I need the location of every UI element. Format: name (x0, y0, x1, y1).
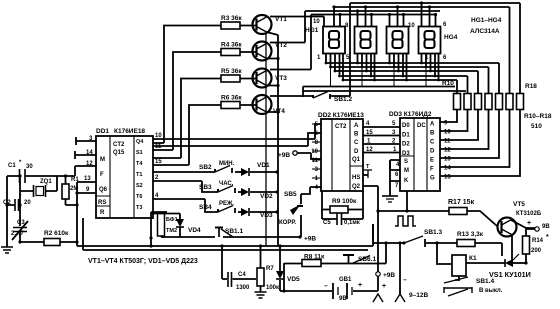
wire BF1 bottom (161, 236, 215, 237)
wire (218, 228, 220, 238)
svg-text:SB3: SB3 (199, 184, 212, 191)
junction (334, 70, 337, 73)
wire (421, 3, 423, 27)
terminal +9V left (293, 151, 297, 155)
svg-text:R4 36к: R4 36к (221, 42, 242, 49)
junction (275, 210, 278, 213)
wire (365, 7, 367, 27)
svg-text:CT2: CT2 (113, 142, 125, 148)
wire (179, 214, 181, 220)
svg-text:R10–R18: R10–R18 (524, 113, 552, 120)
svg-text:G: G (430, 176, 435, 182)
svg-text:VD4: VD4 (188, 227, 201, 234)
junction (402, 241, 405, 244)
svg-text:M: M (404, 168, 409, 174)
wire DD1 bottom to bus (151, 212, 167, 246)
svg-text:20: 20 (24, 200, 31, 206)
svg-text:T1: T1 (136, 172, 142, 178)
junction (370, 13, 373, 16)
wire (7, 204, 20, 206)
wire (312, 132, 321, 134)
svg-text:+9В: +9В (383, 272, 395, 279)
svg-text:В выкл.: В выкл. (479, 288, 503, 294)
resistor R5 36k (221, 75, 240, 82)
wire DD1 pin to R5 (181, 79, 221, 159)
wire (425, 54, 427, 87)
wire R17 to VT5 base (467, 211, 497, 226)
junction (332, 5, 335, 8)
wire (389, 181, 391, 196)
wire (389, 54, 391, 64)
junction (282, 289, 285, 292)
wire (398, 54, 400, 72)
wire (34, 185, 46, 197)
wire bottom bus 1 (77, 224, 373, 246)
wire (372, 224, 374, 241)
junction (329, 66, 332, 69)
wire SB6 riser (385, 243, 387, 264)
wire (12, 221, 28, 240)
wire (434, 54, 436, 77)
transistor VT3 (253, 69, 272, 88)
wire (238, 191, 241, 193)
svg-text:E: E (430, 158, 434, 164)
svg-text:C3: C3 (17, 220, 25, 226)
wire (15, 199, 19, 211)
ground left (1, 247, 13, 253)
wire DD2 D to DD3 D3 (363, 152, 400, 154)
svg-text:S2: S2 (136, 183, 143, 189)
wire (425, 54, 427, 68)
junction emitter VT3 (276, 84, 279, 87)
wire (312, 123, 321, 125)
wire R6-VT4 base (240, 104, 257, 106)
wire R13 to VS1 gate (475, 243, 502, 256)
svg-text:Q15: Q15 (113, 150, 125, 156)
svg-text:Q2: Q2 (352, 184, 361, 190)
svg-text:КОРР.: КОРР. (279, 220, 296, 226)
wire DD1 to SB4 (153, 199, 218, 212)
svg-text:B: B (354, 132, 359, 138)
junction (338, 13, 341, 16)
wire (333, 7, 335, 27)
svg-text:VS1 КУ101И: VS1 КУ101И (489, 270, 531, 279)
wire (377, 276, 379, 291)
junction (388, 62, 391, 65)
junction emitter VT2 (276, 57, 279, 60)
svg-text:*: * (546, 234, 549, 241)
svg-text:10: 10 (444, 130, 451, 136)
wire (7, 175, 75, 177)
svg-text:SB1.3: SB1.3 (424, 229, 442, 236)
wire (361, 54, 363, 68)
wire (77, 181, 96, 183)
svg-text:13: 13 (444, 157, 451, 163)
wire (438, 54, 440, 81)
svg-text:Q4: Q4 (136, 139, 144, 145)
junction (75, 191, 78, 194)
svg-text:SB5: SB5 (284, 191, 297, 198)
svg-text:T3: T3 (136, 205, 142, 211)
svg-text:HG1: HG1 (305, 27, 319, 34)
svg-text:D2: D2 (402, 142, 410, 148)
junction (75, 240, 78, 243)
svg-text:+9В: +9В (304, 236, 316, 243)
wire (440, 110, 468, 132)
junction (364, 5, 367, 8)
svg-text:VD2: VD2 (260, 193, 273, 200)
junction (64, 174, 67, 177)
svg-text:ЧАС.: ЧАС. (219, 181, 234, 187)
junction (435, 241, 438, 244)
svg-text:+: + (527, 220, 531, 227)
wire (513, 262, 526, 264)
wire (235, 171, 241, 173)
wire (351, 287, 353, 295)
junction (405, 79, 408, 82)
junction (434, 13, 437, 16)
svg-text:D1: D1 (402, 132, 410, 138)
junction (361, 66, 364, 69)
wire (75, 166, 96, 176)
wire (284, 263, 386, 265)
svg-text:SB1.1: SB1.1 (225, 228, 243, 235)
wire (466, 262, 505, 264)
wire seg bus c (336, 71, 478, 93)
junction (259, 244, 262, 247)
wire seg bus a (326, 63, 499, 93)
junction (402, 75, 405, 78)
wire (378, 210, 449, 212)
wire (332, 283, 334, 299)
svg-text:9В: 9В (542, 224, 550, 230)
wire (332, 119, 350, 191)
junction (18, 174, 21, 177)
junction (5, 203, 8, 206)
svg-text:SB2: SB2 (199, 164, 212, 171)
svg-text:DD1: DD1 (96, 128, 109, 135)
svg-text:R2 610к: R2 610к (44, 230, 69, 237)
svg-text:30: 30 (26, 164, 33, 170)
wire VT1 collector to HG1 (270, 17, 324, 27)
svg-text:VD1: VD1 (257, 162, 270, 169)
wire (301, 187, 321, 204)
svg-text:S: S (404, 159, 408, 165)
svg-text:9–12В: 9–12В (409, 292, 428, 299)
wire VT2 collector riser (270, 11, 305, 43)
wire (337, 287, 339, 295)
wire (440, 110, 457, 123)
svg-text:C4: C4 (238, 272, 246, 278)
wire (6, 176, 8, 247)
wire (279, 246, 281, 291)
wire (366, 54, 368, 72)
wire (397, 7, 399, 27)
wire (364, 170, 372, 178)
svg-text:F: F (430, 167, 434, 173)
wire DD1 pin to R3 (164, 26, 221, 144)
wire seg bus d (341, 76, 468, 93)
svg-text:D: D (354, 149, 359, 155)
svg-text:2…7: 2…7 (11, 231, 24, 237)
wire VT4 collector (270, 95, 313, 97)
wire (440, 110, 499, 159)
wire (96, 196, 110, 206)
wire (395, 216, 416, 226)
svg-text:БФ1: БФ1 (166, 217, 178, 223)
wire (424, 239, 426, 247)
junction (420, 62, 423, 65)
svg-text:R18: R18 (525, 83, 537, 90)
junction (220, 244, 223, 247)
wire top bus 4 (311, 14, 437, 16)
wire (66, 176, 78, 205)
wire (250, 191, 277, 193)
svg-text:10: 10 (313, 19, 320, 25)
junction (405, 209, 408, 212)
wire (346, 283, 348, 299)
wire (250, 211, 277, 213)
svg-text:F: F (100, 172, 104, 178)
svg-text:C: C (430, 140, 435, 146)
wire (440, 110, 510, 168)
wire (444, 287, 472, 293)
wire (386, 199, 394, 202)
wire DD2 B to DD3 D1 (363, 135, 400, 137)
wire (403, 15, 405, 27)
transistor VT2 (253, 42, 272, 61)
junction emitter VT4 (276, 110, 279, 113)
IC DD3 K176ID2 (400, 118, 440, 191)
wire (339, 15, 341, 27)
wire (312, 186, 321, 188)
wire (513, 254, 519, 260)
wire VT3 collector riser (270, 15, 311, 70)
junction (75, 203, 78, 206)
wire to K1 (437, 243, 452, 264)
junction (149, 244, 152, 247)
wire DD1 pin to R6 (189, 105, 221, 165)
wire (374, 54, 376, 81)
svg-text:АЛС314А: АЛС314А (470, 28, 500, 35)
wire (361, 54, 363, 87)
svg-text:VT3: VT3 (275, 75, 287, 82)
wire (400, 155, 414, 157)
wire (20, 176, 57, 191)
wire (406, 54, 408, 81)
display HG2 (355, 27, 377, 54)
wire (260, 246, 262, 292)
wire (382, 195, 398, 197)
svg-text:R3 36к: R3 36к (221, 15, 242, 22)
wire (342, 54, 344, 81)
common fork 2 (395, 294, 405, 302)
svg-text:M: M (100, 157, 105, 163)
svg-text:D0: D0 (402, 123, 410, 129)
wire DD2 Q2 to R17 line (363, 186, 378, 211)
resistors R10-R17 row (454, 94, 461, 110)
junction (397, 70, 400, 73)
svg-text:R9 100к: R9 100к (332, 198, 357, 205)
wire (322, 210, 363, 220)
buzzer BF1 (158, 213, 165, 236)
wire (348, 255, 350, 264)
wire SB1.2 to top bus (330, 3, 350, 96)
wire top bus 3 (305, 10, 440, 12)
svg-text:T4: T4 (136, 161, 143, 167)
ground R7 (255, 292, 267, 298)
wire (179, 227, 181, 237)
wire bus to SB1.3 (373, 242, 404, 244)
wire (330, 54, 332, 68)
display HG4 (419, 27, 441, 54)
wire (440, 110, 489, 150)
wire seg bus f tail (302, 87, 304, 98)
svg-text:A: A (430, 122, 435, 128)
wire (283, 263, 285, 291)
wire SB1.3 to R13 (426, 242, 457, 244)
wire (350, 165, 363, 167)
wire DD2 C to DD3 D2 (363, 143, 400, 145)
wire (77, 192, 96, 194)
svg-text:HS: HS (352, 175, 360, 181)
wire DD3 output down (406, 191, 408, 211)
svg-text:−: − (324, 283, 328, 290)
wire (414, 118, 427, 191)
wire (75, 151, 96, 159)
svg-text:R13 3,3к: R13 3,3к (457, 231, 484, 238)
resistor R3 36k (221, 22, 240, 29)
IC DD1 K176IE18 (96, 136, 153, 218)
wire DD3 SMK pins (390, 160, 400, 181)
wire (448, 289, 468, 296)
junction (429, 70, 432, 73)
IC DD2 K176IE13 (321, 119, 363, 191)
svg-text:B: B (430, 131, 435, 137)
wire (312, 150, 321, 152)
wire (325, 54, 327, 64)
wire (430, 54, 432, 72)
common fork 1 (373, 294, 383, 302)
svg-text:R10: R10 (442, 80, 454, 87)
wire (221, 229, 233, 237)
wire (322, 191, 363, 219)
wire (389, 160, 391, 196)
wire (525, 254, 527, 263)
transistor VT4 (253, 95, 272, 114)
wire (363, 174, 368, 176)
junction (437, 79, 440, 82)
wire VT5 emitter (511, 220, 535, 228)
junction (149, 236, 152, 239)
wire (228, 272, 232, 287)
wire (393, 54, 395, 87)
wire VT2-VT4 emitters (267, 59, 279, 113)
svg-text:К1: К1 (469, 255, 477, 262)
junction (356, 62, 359, 65)
wire (353, 290, 378, 292)
wire (343, 254, 354, 256)
wire (312, 168, 321, 170)
svg-text:КТ3102Б: КТ3102Б (516, 211, 542, 217)
switch SB3 (218, 186, 233, 193)
svg-text:HG1–HG4: HG1–HG4 (471, 17, 502, 24)
wire (399, 243, 401, 294)
svg-text:R14: R14 (532, 238, 544, 244)
svg-text:D: D (430, 149, 435, 155)
svg-text:12: 12 (444, 148, 451, 154)
junction (434, 75, 437, 78)
wire (223, 236, 300, 238)
svg-text:T6: T6 (136, 194, 142, 200)
wire (357, 11, 359, 27)
wire (337, 213, 342, 225)
svg-text:HG4: HG4 (444, 34, 458, 41)
svg-text:Q6: Q6 (99, 187, 108, 193)
svg-text:C1: C1 (8, 163, 16, 169)
resistor R13 3.3k (457, 240, 475, 247)
svg-text:ТМ2: ТМ2 (166, 228, 177, 234)
svg-text:R7: R7 (266, 266, 274, 272)
wire (389, 15, 391, 27)
junction (278, 244, 281, 247)
svg-text:R: R (100, 210, 105, 216)
svg-text:VT5: VT5 (513, 201, 525, 208)
junction (402, 13, 405, 16)
wire (19, 232, 21, 243)
svg-text:C5: C5 (323, 220, 331, 226)
svg-text:VT1–VT4 КТ503Г; VD1–VD5 Д223: VT1–VT4 КТ503Г; VD1–VD5 Д223 (88, 258, 198, 265)
wire (429, 7, 431, 27)
wire (20, 169, 26, 183)
junction (373, 79, 376, 82)
wire bottom bus 2 (83, 218, 368, 250)
wire (393, 54, 395, 68)
wire (435, 15, 437, 27)
wire (76, 137, 96, 145)
junction (370, 75, 373, 78)
wire (312, 141, 321, 143)
wire R4-VT2 base (240, 51, 257, 53)
svg-text:МИН.: МИН. (219, 161, 235, 167)
wire (526, 229, 535, 236)
junction (325, 62, 328, 65)
wire DD1 to SB3 (153, 181, 218, 192)
wire DD1 pin to R4 (173, 52, 221, 150)
svg-text:SB1.4: SB1.4 (476, 278, 494, 285)
wire (440, 110, 520, 177)
svg-text:15: 15 (366, 130, 373, 136)
svg-text:GB1: GB1 (339, 277, 352, 283)
svg-text:510: 510 (531, 123, 542, 130)
svg-text:VD3: VD3 (260, 212, 273, 219)
wire (221, 246, 223, 279)
junction (365, 70, 368, 73)
wire (297, 153, 321, 159)
svg-text:11: 11 (444, 139, 451, 145)
svg-text:12: 12 (366, 147, 373, 153)
wire (440, 110, 478, 141)
wire VT emitter bus (267, 32, 279, 246)
svg-text:+9В: +9В (278, 152, 290, 159)
wire (280, 290, 332, 292)
wire seg bus b (331, 67, 489, 93)
transistor VT5 KT3102 (498, 218, 517, 237)
svg-text:R5 36к: R5 36к (221, 68, 242, 75)
svg-text:К176ИЕ18: К176ИЕ18 (114, 128, 145, 135)
wire (222, 278, 256, 280)
svg-text:9В: 9В (339, 296, 347, 302)
